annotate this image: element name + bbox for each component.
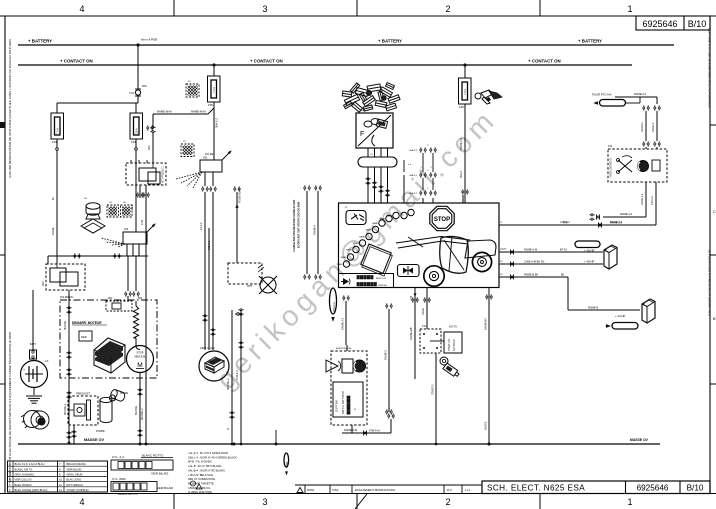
- svg-text:21KB-A-M BK FIL: 21KB-A-M BK FIL: [524, 260, 545, 264]
- svg-text:EXACTEMENT MODIFICATION: EXACTEMENT MODIFICATION: [355, 488, 395, 492]
- svg-text:BCT PRESS CL: BCT PRESS CL: [162, 165, 165, 183]
- svg-text:21B-2-2: 21B-2-2: [207, 240, 211, 250]
- svg-text:ROT GRINCO: ROT GRINCO: [67, 483, 84, 487]
- svg-text:K02: K02: [41, 281, 45, 286]
- svg-text:30A-2: 30A-2: [459, 171, 463, 178]
- svg-text:GRAU GRUN: GRAU GRUN: [67, 473, 83, 477]
- svg-text:F01: F01: [130, 91, 135, 95]
- svg-text:+ CONTACT ON: + CONTACT ON: [528, 59, 561, 64]
- svg-text:BLAU C1.8, 2.1/2-4 BLAU: BLAU C1.8, 2.1/2-4 BLAU: [15, 462, 45, 466]
- svg-text:+ 34-HP: + 34-HP: [615, 314, 625, 318]
- svg-text:K11: K11: [422, 325, 427, 328]
- svg-text:M: M: [137, 362, 142, 369]
- svg-text:DATE: DATE: [307, 488, 314, 492]
- svg-text:RAME-2-2: RAME-2-2: [641, 193, 644, 205]
- svg-text:1: 1: [627, 497, 632, 507]
- svg-text:RAME-B BK: RAME-B BK: [524, 273, 539, 277]
- svg-text:21-2: 21-2: [130, 204, 134, 210]
- svg-text:30A-2-2: 30A-2-2: [409, 192, 418, 195]
- svg-text:RAME-2-2: RAME-2-2: [341, 317, 345, 330]
- svg-text:2: 2: [445, 4, 450, 14]
- svg-text:VIOLET (PURPLE): VIOLET (PURPLE): [67, 488, 89, 492]
- svg-text:RAME: RAME: [359, 236, 365, 239]
- svg-text:6P-B : FIL N°05 BIS: 6P-B : FIL N°05 BIS: [188, 460, 212, 464]
- svg-text:VENT.E.M.: VENT.E.M.: [134, 356, 146, 359]
- svg-text:POUR PTO HH: POUR PTO HH: [592, 93, 611, 97]
- svg-text:BLANC GM TO: BLANC GM TO: [15, 467, 33, 471]
- svg-text:RAME-A: RAME-A: [313, 225, 317, 235]
- svg-text:RAME-2-2: RAME-2-2: [459, 137, 463, 150]
- svg-text:+ 45-HP: + 45-HP: [584, 260, 594, 264]
- svg-text:RAME-BV: RAME-BV: [484, 318, 488, 330]
- svg-text:3: 3: [262, 4, 267, 14]
- svg-text:VISA: VISA: [332, 488, 339, 492]
- svg-text:47M: 47M: [563, 222, 568, 225]
- svg-text:BLANC ROTTO: BLANC ROTTO: [118, 492, 139, 496]
- svg-text:MASSE-1: MASSE-1: [63, 403, 67, 415]
- svg-text:FILTRE: FILTRE: [120, 392, 128, 395]
- svg-text:RAME: RAME: [346, 249, 352, 252]
- svg-text:RAME-A-M: RAME-A-M: [344, 428, 357, 432]
- svg-text:+AL-B : FIL N° BK 5 BLANC: +AL-B : FIL N° BK 5 BLANC: [188, 464, 222, 468]
- svg-text:+ 45-HP: + 45-HP: [584, 249, 594, 253]
- svg-text:3: 3: [262, 497, 267, 507]
- svg-text:NO STALS: NO STALS: [453, 339, 456, 351]
- svg-text:AVERTISSEUR: AVERTISSEUR: [336, 347, 352, 350]
- svg-text:6925646: 6925646: [642, 19, 677, 29]
- svg-text:20 A: 20 A: [135, 128, 139, 133]
- svg-text:4: 4: [79, 4, 84, 14]
- svg-text:21B: 21B: [410, 295, 413, 300]
- svg-text:50A: 50A: [142, 84, 147, 88]
- svg-text:BATT 2+ BATT STOP: BATT 2+ BATT STOP: [342, 391, 345, 414]
- svg-text:B/10: B/10: [687, 484, 704, 493]
- svg-text:RAME: RAME: [366, 229, 372, 232]
- svg-text:6mm A PDB: 6mm A PDB: [141, 38, 157, 42]
- svg-text:1: 1: [627, 4, 632, 14]
- svg-text:MASSE-2: MASSE-2: [140, 408, 144, 420]
- svg-text:30A: 30A: [147, 145, 151, 150]
- svg-text:RAME: RAME: [341, 256, 347, 259]
- svg-text:30A-2-2: 30A-2-2: [409, 149, 418, 152]
- svg-text:RAME-2-2: RAME-2-2: [610, 221, 623, 225]
- svg-text:BLEU RONCO: BLEU RONCO: [15, 483, 32, 487]
- svg-text:DI FLE MTI ESTIC PROTOTIC FI B: DI FLE MTI ESTIC PROTOTIC FI BM MAY KTB: [708, 250, 712, 316]
- svg-text:SCH. ELECT. N625 ESA: SCH. ELECT. N625 ESA: [487, 484, 585, 493]
- svg-text:START CIC: START CIC: [448, 338, 451, 351]
- svg-text:K03: K03: [124, 228, 129, 231]
- svg-text:AUCUNE MODIFICATION NE DOIT ET: AUCUNE MODIFICATION NE DOIT ETRE EFFECTU…: [8, 39, 12, 178]
- svg-text:PRESSOST: PRESSOST: [76, 392, 91, 396]
- svg-text:+: +: [23, 368, 25, 372]
- svg-text:RADIO-2: RADIO-2: [641, 122, 644, 132]
- svg-text:BK: BK: [561, 274, 565, 277]
- svg-text:MASSE: MASSE: [63, 321, 67, 330]
- svg-text:VAL-B-4 : NOIR N° RD BLANC: VAL-B-4 : NOIR N° RD BLANC: [188, 468, 225, 472]
- svg-text:BF FIL: BF FIL: [560, 249, 568, 252]
- svg-text:COPYRIGHT BY GEHNHOME GMB MTIC: COPYRIGHT BY GEHNHOME GMB MTIC AUTOMATIO…: [708, 28, 712, 108]
- svg-text:+ BLA N° BELK NCH: + BLA N° BELK NCH: [188, 473, 213, 477]
- svg-text:+AL-9-4 : FIL N°0.5 NOIR2-NOIR: +AL-9-4 : FIL N°0.5 NOIR2-NOIR: [188, 451, 228, 455]
- svg-text:K01 REL: K01 REL: [205, 153, 215, 156]
- svg-text:RAME-A/B: RAME-A/B: [409, 327, 413, 340]
- svg-text:RAME-2: RAME-2: [652, 122, 655, 132]
- svg-text:K02 RELAIS: K02 RELAIS: [60, 296, 73, 299]
- svg-text:N.VENE PHETITRE: N.VENE PHETITRE: [188, 490, 212, 494]
- svg-text:F03: F03: [131, 140, 136, 144]
- svg-text:S-DPT BW: S-DPT BW: [336, 400, 339, 412]
- svg-text:S-BW: S-BW: [286, 461, 289, 468]
- svg-text:+ BATTERY: + BATTERY: [378, 39, 402, 44]
- svg-text:BLAU FONCE (GRIS BLAU): BLAU FONCE (GRIS BLAU): [15, 488, 48, 492]
- svg-text:DEMARR. MOTEUR: DEMARR. MOTEUR: [72, 321, 102, 325]
- svg-text:6925646: 6925646: [637, 484, 669, 493]
- svg-text:RAME-2-2: RAME-2-2: [634, 92, 647, 96]
- svg-text:21-2-2: 21-2-2: [199, 222, 203, 230]
- svg-text:MASSE: MASSE: [134, 406, 138, 415]
- svg-text:RAME: RAME: [337, 263, 343, 266]
- svg-text:RAME: RAME: [372, 222, 378, 225]
- svg-text:B/10: B/10: [688, 19, 707, 29]
- svg-text:R01: R01: [108, 298, 113, 300]
- svg-text:EXPL: EXPL: [360, 110, 366, 112]
- svg-text:BPR HB: BPR HB: [379, 285, 388, 287]
- svg-text:VEIR BILAID: VEIR BILAID: [67, 467, 82, 471]
- svg-text:STOP: STOP: [136, 351, 143, 355]
- svg-text:RAME-2: RAME-2: [384, 350, 388, 360]
- svg-text:C: C: [641, 160, 644, 162]
- svg-text:7.5 A: 7.5 A: [463, 89, 467, 95]
- svg-text:RAME-A-M: RAME-A-M: [524, 248, 537, 252]
- svg-text:F: F: [360, 131, 364, 138]
- svg-text:M: M: [227, 428, 230, 430]
- svg-text:BLANC ROTTO: BLANC ROTTO: [142, 454, 164, 458]
- svg-text:BRAUN ORANG: BRAUN ORANG: [67, 462, 86, 466]
- svg-text:1BD CT COMMUTATE: 1BD CT COMMUTATE: [188, 477, 215, 481]
- svg-text:4: 4: [79, 497, 84, 507]
- svg-text:MASSE OV: MASSE OV: [84, 438, 105, 442]
- svg-text:POUR KL: POUR KL: [333, 301, 336, 312]
- svg-text:F05: F05: [208, 103, 213, 107]
- svg-text:K01: K01: [203, 156, 208, 160]
- svg-text:OPT: OPT: [247, 284, 253, 288]
- svg-text:R02: R02: [138, 298, 143, 300]
- svg-text:GRIS JO(ANNE): GRIS JO(ANNE): [15, 473, 34, 477]
- svg-text:RAME: RAME: [422, 308, 425, 315]
- svg-text:+ BATTERY: + BATTERY: [578, 39, 602, 44]
- svg-text:K12: K12: [608, 145, 613, 148]
- svg-text:F06: F06: [459, 105, 464, 109]
- svg-text:MASSE: MASSE: [485, 421, 488, 430]
- svg-text:I CABLE AVA UTILISE ROUE CASSE: I CABLE AVA UTILISE ROUE CASSE ET AVA: [293, 199, 296, 252]
- svg-text:VEIR COLLYD: VEIR COLLYD: [15, 478, 32, 482]
- svg-text:MASSE-2: MASSE-2: [226, 378, 230, 390]
- svg-text:47M-A-M: 47M-A-M: [369, 429, 380, 433]
- svg-text:START-2: START-2: [431, 384, 435, 395]
- svg-text:XXX: XXX: [502, 249, 507, 251]
- svg-text:RAME-B: RAME-B: [588, 306, 598, 310]
- svg-text:7.5 A: 7.5 A: [212, 87, 216, 93]
- svg-text:SCHEMA CIRCUIT ELECTRIQUE DE D: SCHEMA CIRCUIT ELECTRIQUE DE DEPART MOTE…: [8, 332, 12, 483]
- svg-text:CYL. BAR: CYL. BAR: [112, 477, 127, 481]
- svg-text:CYL. 2-4: CYL. 2-4: [112, 455, 124, 459]
- svg-text:2: 2: [445, 497, 450, 507]
- svg-text:STOP: STOP: [434, 217, 450, 223]
- svg-text:BKW P+B: BKW P+B: [376, 278, 386, 280]
- svg-text:RAME-2-2: RAME-2-2: [620, 212, 633, 216]
- svg-text:+ CONTACT ON: + CONTACT ON: [60, 59, 93, 64]
- svg-text:7.5 A: 7.5 A: [56, 128, 60, 134]
- svg-text:VEIR BILAID: VEIR BILAID: [151, 472, 169, 476]
- svg-text:MASSE OV: MASSE OV: [630, 438, 649, 442]
- svg-text:RAME: RAME: [51, 227, 55, 235]
- svg-text:BLAU JONG: BLAU JONG: [67, 478, 82, 482]
- svg-text:B+: B+: [51, 196, 55, 200]
- svg-text:KO73: KO73: [449, 325, 457, 329]
- svg-text:47M-2-2: 47M-2-2: [235, 370, 239, 380]
- svg-text:1+4: 1+4: [465, 488, 470, 492]
- svg-text:ECOPS AUT GHT UTISTA CAS DO BH: ECOPS AUT GHT UTISTA CAS DO BHS: [298, 201, 301, 248]
- svg-text:+ BATTERY: + BATTERY: [28, 39, 52, 44]
- svg-text:R.V.: R.V.: [447, 488, 452, 492]
- svg-text:DED: DED: [81, 335, 87, 339]
- svg-text:CENT CLIGN: CENT CLIGN: [200, 347, 215, 350]
- svg-text:CBL-L-4 : NOIR N° 45.4 GREEN-B: CBL-L-4 : NOIR N° 45.4 GREEN-BLACK: [188, 455, 237, 459]
- svg-text:RAME-M-M: RAME-M-M: [191, 110, 206, 114]
- svg-text:RAME: RAME: [353, 242, 359, 245]
- svg-text:POMPE: POMPE: [96, 430, 105, 433]
- svg-text:47M-2-2: 47M-2-2: [651, 195, 654, 205]
- svg-text:CL: CL: [210, 360, 214, 364]
- svg-text:RAME-M-M: RAME-M-M: [157, 110, 172, 114]
- svg-text:BATT: BATT: [30, 343, 36, 346]
- svg-text:VEIR BILAID: VEIR BILAID: [157, 486, 173, 490]
- svg-text:+OBD 12V/OBD-D: +OBD 12V/OBD-D: [610, 158, 613, 178]
- svg-text:F04: F04: [52, 140, 57, 144]
- svg-text:+ CONTACT ON: + CONTACT ON: [250, 59, 283, 64]
- svg-text:47M: 47M: [140, 220, 144, 225]
- svg-text:30A-2-2: 30A-2-2: [409, 174, 418, 177]
- svg-text:30A-2-2: 30A-2-2: [215, 118, 219, 128]
